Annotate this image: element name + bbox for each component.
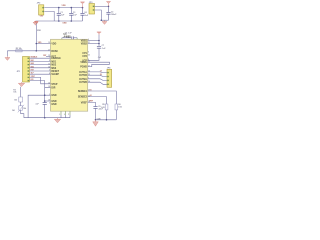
wire VBB1 — [88, 40, 99, 42]
svg-text:16: 16 — [48, 82, 50, 84]
wire C7 to VCP pin — [88, 48, 99, 60]
trimmer R4 — [19, 106, 23, 110]
svg-text:13: 13 — [48, 63, 50, 65]
svg-text:0.5W: 0.5W — [97, 118, 101, 120]
svg-text:11: 11 — [88, 61, 90, 63]
wire VBB vertical — [98, 35, 100, 47]
svg-text:RESET: RESET — [51, 71, 59, 73]
op-amp U1 A4988 driver IC body — [51, 39, 88, 111]
ground symbol bottom-center — [54, 118, 60, 123]
JP1 pin pads — [28, 58, 29, 82]
svg-text:SLEEP: SLEEP — [51, 74, 59, 76]
junction on bus — [44, 117, 46, 119]
wire JP3 pin1 to VMOT — [95, 5, 109, 7]
pin names right column — [78, 39, 90, 104]
wire divider top — [20, 87, 22, 97]
svg-text:R4: R4 — [12, 109, 14, 112]
wire VREG wrap — [88, 62, 110, 66]
wire GND rail top-left — [36, 20, 83, 22]
svg-text:19: 19 — [48, 86, 50, 88]
wire DIR net down — [44, 87, 46, 102]
svg-text:23: 23 — [88, 55, 90, 57]
junction dot — [101, 19, 103, 21]
svg-text:VDD: VDD — [62, 5, 67, 7]
svg-text:VREG: VREG — [80, 62, 87, 64]
svg-text:10k: 10k — [23, 108, 26, 110]
svg-text:GND: GND — [51, 95, 56, 97]
svg-text:GND: GND — [51, 101, 56, 103]
svg-text:C5 .1uF: C5 .1uF — [65, 33, 73, 35]
svg-text:100uF: 100uF — [111, 14, 117, 16]
svg-text:SENSE1: SENSE1 — [78, 91, 88, 93]
junction — [36, 50, 38, 52]
wire VBB2 — [88, 43, 99, 45]
connector JP3 (motor supply header) — [89, 4, 95, 15]
wire cap to CP2 — [74, 37, 78, 39]
svg-text:27: 27 — [88, 65, 90, 67]
svg-text:RST: RST — [43, 55, 46, 57]
svg-text:GND: GND — [62, 23, 67, 25]
wire C9 to bus — [95, 108, 97, 119]
wire JP1 pin8 DIR — [30, 81, 51, 88]
capacitor C6 — [43, 102, 47, 104]
wire SENSE1 — [88, 91, 117, 104]
wire R6 to bus — [115, 110, 117, 120]
ground symbol top-left — [33, 21, 38, 25]
svg-text:GND: GND — [40, 15, 43, 17]
wire C6 to bus — [44, 104, 46, 117]
wire bottom-right GND bus — [96, 119, 117, 121]
svg-text:MS2: MS2 — [51, 65, 56, 67]
svg-text:22: 22 — [88, 74, 90, 76]
svg-text:10: 10 — [48, 42, 50, 44]
ground symbol top-right — [102, 20, 107, 24]
svg-text:MS1: MS1 — [51, 61, 56, 63]
svg-text:VDD: VDD — [51, 43, 56, 45]
svg-text:S2: S2 — [90, 95, 92, 97]
resistor R2 10k — [16, 50, 22, 52]
power flag VBB — [97, 32, 101, 35]
svg-text:MS2: MS2 — [31, 63, 34, 65]
power flag VMOT — [106, 2, 110, 7]
svg-text:VREF: VREF — [81, 102, 88, 104]
wires OUT pins to JP4 — [88, 72, 107, 84]
capacitor C4 — [80, 8, 84, 21]
wire VDD pin — [36, 43, 50, 45]
wire JP1 pin7 STEP — [30, 77, 51, 83]
svg-text:18: 18 — [48, 100, 50, 102]
svg-text:R2 10k: R2 10k — [16, 48, 22, 50]
svg-text:5: 5 — [88, 52, 89, 54]
wire SENSE2 — [88, 97, 107, 104]
wire GND bus top-right — [101, 19, 108, 21]
trimmer arrow — [18, 105, 24, 113]
connector JP2 (logic supply header) — [39, 5, 44, 15]
svg-text:OUT2B: OUT2B — [79, 82, 87, 84]
pin CP2 stub — [76, 38, 78, 40]
connector JP1 — [23, 57, 30, 83]
svg-text:S1: S1 — [90, 89, 92, 91]
capacitor C9 — [93, 106, 97, 108]
capacitor C7 — [97, 45, 101, 47]
capacitor C3 — [69, 8, 73, 21]
wire GND pin row101 — [45, 100, 51, 102]
svg-text:PGND: PGND — [80, 67, 87, 69]
svg-text:ROSC: ROSC — [51, 51, 58, 53]
junction VMOT — [108, 6, 110, 8]
wires JP1 pins 1-6 to IC — [30, 56, 51, 75]
capacitor C2 100uF — [106, 6, 110, 20]
svg-text:P: P — [68, 114, 69, 116]
wire bottom GND bus — [24, 117, 70, 119]
svg-text:GND: GND — [51, 104, 56, 106]
svg-text:VBB1: VBB1 — [81, 40, 88, 42]
svg-text:7: 7 — [88, 77, 89, 79]
svg-text:12: 12 — [88, 71, 90, 73]
junction dots on br bus — [95, 119, 97, 121]
pin names left column — [48, 42, 61, 103]
connector JP4 motor header — [107, 69, 112, 87]
ground symbol bottom-right — [93, 120, 99, 126]
ground symbol below JP1 — [18, 82, 24, 87]
svg-text:6: 6 — [88, 39, 89, 41]
svg-text:VREF: VREF — [89, 101, 93, 103]
wire RST stub — [46, 56, 51, 58]
wire VREF — [88, 102, 96, 106]
power flag VDD left — [34, 21, 38, 24]
wire ROSC pin — [7, 50, 50, 52]
capacitor C5 charge pump — [71, 36, 73, 39]
ground symbol far-left — [5, 56, 10, 60]
wire VDD rail — [44, 7, 82, 9]
junction dots on rails — [58, 7, 60, 9]
wire CP1 to cap — [62, 37, 71, 39]
resistor R6 sense1 — [115, 104, 118, 110]
svg-text:0.05: 0.05 — [118, 106, 122, 108]
svg-text:.1uF: .1uF — [98, 57, 101, 59]
wire JP3 pin2 to GND — [95, 10, 102, 20]
wire between resistors — [20, 102, 22, 106]
wire to gnd left — [6, 51, 8, 56]
svg-text:MS3: MS3 — [51, 68, 56, 70]
svg-text:17: 17 — [48, 49, 50, 51]
svg-text:DIR: DIR — [51, 87, 55, 89]
svg-text:OUT2A: OUT2A — [79, 78, 87, 81]
IC bottom GND pin stubs — [59, 111, 70, 118]
junction dots — [44, 94, 46, 96]
junction — [36, 43, 38, 45]
svg-text:SENSE2: SENSE2 — [78, 97, 88, 99]
wire VDD flag down — [35, 24, 37, 51]
svg-text:CP2: CP2 — [82, 56, 87, 58]
svg-text:CP1: CP1 — [82, 53, 87, 55]
svg-text:10k: 10k — [13, 92, 16, 94]
svg-text:A4988: A4988 — [64, 36, 72, 39]
resistor R5 sense2 — [105, 104, 108, 110]
svg-text:VDD: VDD — [37, 30, 42, 32]
junction dots VBB — [98, 40, 100, 42]
svg-text:STEP: STEP — [51, 84, 57, 86]
svg-text:MS1: MS1 — [31, 60, 34, 62]
capacitor C1 — [57, 8, 61, 21]
svg-text:OUT1B: OUT1B — [79, 75, 87, 77]
pin CP1 stub — [61, 38, 63, 40]
svg-text:10k: 10k — [14, 100, 17, 102]
svg-text:15: 15 — [48, 55, 50, 57]
svg-text:MS3: MS3 — [31, 66, 34, 68]
wire JP2 pin2 to GND rail — [44, 11, 54, 21]
svg-text:ENABLE: ENABLE — [51, 57, 61, 60]
svg-text:VBB2: VBB2 — [81, 43, 88, 45]
svg-text:OUT1A: OUT1A — [79, 71, 87, 74]
resistor R3 — [19, 97, 23, 102]
power flag VDD top — [80, 2, 84, 8]
wire GND pin row95 — [28, 95, 50, 118]
svg-text:21: 21 — [88, 42, 90, 44]
svg-text:RST: RST — [31, 70, 34, 72]
wire R5 to bus — [106, 110, 108, 120]
wire divider to bus — [21, 110, 24, 118]
